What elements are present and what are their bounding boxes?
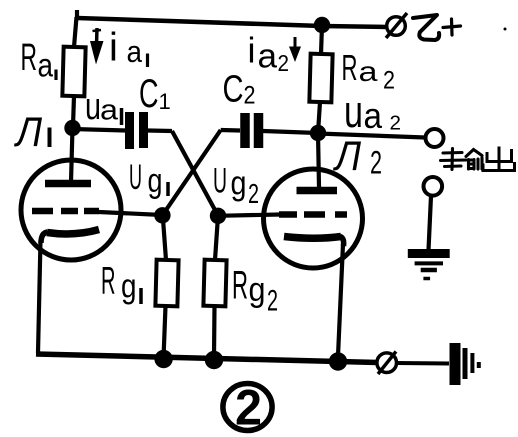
output ground terminal circle (424, 177, 443, 196)
svg-text:R: R (342, 47, 358, 88)
svg-text:2: 2 (390, 113, 402, 135)
speck (504, 28, 507, 31)
chassis ground dot (477, 362, 481, 368)
svg-text:u: u (344, 86, 363, 137)
chassis ground bar 3 (470, 353, 474, 373)
label Ug2 (213, 162, 259, 209)
wire cathode1 lead down (38, 240, 41, 353)
tube V1 cathode (47, 230, 99, 234)
wire Ra2 bottom lead (318, 102, 320, 133)
earth ground bar 2 (415, 261, 443, 265)
earth ground bar 3 (421, 268, 437, 273)
wire anode lead tube V2 (318, 133, 319, 187)
label B+ hanzi yi (413, 15, 439, 40)
wire Ra1 bottom lead (73, 96, 74, 126)
svg-text:C: C (139, 72, 159, 116)
tube V1 envelope (21, 160, 121, 260)
node rail junction 1 (154, 350, 172, 368)
wire bottom rail (36, 354, 378, 363)
svg-text:R: R (101, 260, 116, 303)
wire cross corner to C2 (221, 128, 240, 133)
capacitor C1 right plate (139, 112, 148, 148)
svg-text:2: 2 (244, 82, 256, 110)
tube V1 anode plate (45, 180, 91, 188)
label ua2 (344, 86, 401, 137)
svg-text:i: i (109, 26, 118, 70)
wire node Ug2 to Rg2 (215, 216, 218, 260)
label Rg2 (232, 264, 278, 318)
wire anode lead tube V1 (71, 128, 73, 182)
svg-text:g: g (148, 162, 163, 200)
node rail junction 3 (329, 352, 347, 370)
node ua2 junction (310, 125, 326, 141)
svg-text:a: a (100, 95, 119, 127)
terminal bottom slashed circle (377, 353, 397, 373)
svg-text:i: i (248, 30, 256, 71)
arrowhead ia1 (90, 41, 104, 65)
svg-text:1: 1 (159, 89, 171, 114)
wire Ra1 top lead (74, 17, 77, 47)
svg-text:R: R (232, 264, 248, 308)
wire diagonal C1 to node Ug2 (172, 131, 218, 216)
svg-text:R: R (21, 37, 38, 79)
wire node ua1 to C1 (73, 129, 127, 131)
svg-text:a: a (364, 95, 383, 136)
wire Rg2 to rail (212, 306, 217, 357)
tube V2 anode plate (297, 187, 338, 195)
svg-text:2: 2 (383, 67, 395, 95)
tube V2 grid dash 3 (335, 211, 347, 218)
wire diagonal C2 to node Ug1 (162, 130, 220, 215)
tube V1 grid dash 3 (84, 208, 99, 215)
label C1 (139, 72, 171, 116)
svg-text:U: U (129, 158, 142, 197)
current arrow ia2 tail (294, 37, 297, 49)
terminal B+ slashed circle (387, 17, 406, 36)
svg-text:2: 2 (370, 145, 382, 181)
svg-text:g: g (121, 267, 137, 305)
svg-text:C: C (223, 69, 244, 111)
wire terminal to earth ground (429, 196, 432, 250)
node Ug1 junction (154, 207, 170, 223)
node rail junction 2 (205, 351, 223, 369)
wire Rg1 to rail (164, 306, 166, 356)
figure number circled 2 (223, 380, 272, 436)
label Ug1 (129, 158, 163, 200)
label ia2 (248, 30, 290, 77)
label output hanzi chu (483, 147, 516, 173)
label C2 (223, 69, 256, 111)
chassis ground bar 1 (450, 343, 461, 385)
svg-text:2: 2 (267, 285, 278, 318)
wire cathode2 lead down (338, 244, 343, 356)
label ua1 (85, 86, 119, 128)
earth ground bar 4 (423, 277, 430, 281)
wire rail to chassis ground (397, 361, 450, 366)
wire Ra2 top lead (321, 25, 322, 54)
label B+ plus sign (443, 19, 461, 35)
svg-text:a: a (127, 34, 143, 69)
resistor Rg2 (203, 260, 226, 307)
label output hanzi shu (441, 149, 483, 170)
svg-text:2: 2 (248, 178, 259, 209)
svg-text:Л: Л (13, 108, 42, 155)
wire node Ug1 to Rg1 (163, 215, 166, 260)
chassis ground bar 2 (463, 348, 468, 379)
tube V1 grid dash 2 (61, 208, 78, 215)
wire top-left corner tick (75, 10, 79, 19)
tube V2 envelope (264, 169, 363, 268)
node ua1 junction (64, 120, 80, 136)
capacitor C1 left plate (125, 112, 134, 149)
output terminal circle (426, 129, 444, 147)
svg-text:a: a (359, 56, 379, 87)
node Ug2 junction (210, 208, 226, 224)
svg-text:g: g (249, 271, 266, 309)
capacitor C2 right plate (254, 113, 264, 148)
label Ra1 (21, 37, 54, 84)
svg-text:Л: Л (332, 132, 361, 179)
label Rg1 (101, 260, 137, 306)
tube V2 grid dash 2 (304, 211, 325, 218)
wire grid1 lead to node Ug1 (99, 212, 162, 215)
wire C1 right to cross corner (148, 128, 172, 133)
svg-text:a: a (38, 47, 54, 84)
node top junction (314, 17, 330, 33)
label ia1 (109, 26, 143, 70)
svg-text:g: g (231, 164, 247, 202)
wire top rail to B+ (77, 18, 387, 27)
label Ra2 (342, 47, 396, 95)
svg-text:U: U (213, 162, 227, 201)
label V2 (Cyrillic El) (332, 132, 382, 181)
resistor Ra1 (62, 47, 85, 97)
resistor Rg1 (155, 260, 178, 307)
wire grid2 lead from node Ug2 (218, 215, 280, 216)
wire node ua2 to output terminal (318, 134, 425, 138)
resistor Ra2 (309, 54, 332, 103)
svg-text:2: 2 (278, 50, 290, 76)
tube V2 cathode (284, 237, 341, 239)
svg-text:u: u (85, 86, 101, 128)
earth ground bar 1 (408, 249, 450, 258)
capacitor C2 left plate (240, 113, 250, 148)
arrowhead ia2 (289, 47, 301, 63)
svg-text:2: 2 (235, 380, 262, 436)
wire C2 right to node ua2 (263, 131, 318, 133)
tube V2 grid dash 1 (279, 211, 297, 218)
svg-text:a: a (258, 38, 278, 76)
tube V1 grid dash 1 (32, 208, 53, 215)
current arrow ia1 tail (95, 28, 99, 45)
